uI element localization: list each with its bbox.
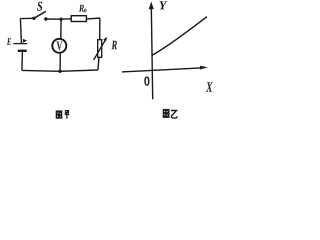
battery polarity mark	[23, 39, 27, 43]
label 0 (origin)	[144, 77, 149, 86]
wire right vertical upper (corner to rheostat)	[99, 18, 101, 40]
wire battery to bottom corner	[21, 52, 24, 70]
wire left vertical (top corner to battery)	[20, 19, 21, 44]
voltmeter V circle	[52, 39, 66, 53]
y-axis arrowhead	[149, 1, 154, 9]
wire node A to resistor R0	[61, 18, 71, 20]
voltmeter V glyph	[57, 42, 63, 51]
battery E negative plate	[18, 50, 27, 52]
switch S contact left	[32, 17, 35, 20]
switch S lever	[34, 11, 46, 18]
rheostat R body	[98, 40, 102, 58]
wire resistor R0 to top-right corner	[86, 18, 99, 19]
wire bottom	[22, 70, 98, 71]
x-axis arrowhead	[200, 66, 208, 70]
rheostat R arrow	[94, 40, 106, 60]
switch S contact right	[44, 17, 47, 20]
wire top-left segment	[20, 17, 34, 19]
caption 图乙 glyph 乙	[171, 111, 177, 119]
battery E positive plate	[13, 43, 27, 45]
caption 图甲 glyph 图	[56, 110, 63, 118]
wire switch to node A	[46, 18, 61, 20]
node B (bottom junction dot)	[58, 70, 61, 73]
caption 图乙 glyph 图	[163, 109, 170, 118]
data line	[152, 17, 207, 56]
wire node A down to voltmeter	[60, 19, 62, 39]
y-axis	[151, 6, 152, 99]
wire right vertical lower (rheostat to bottom corner)	[98, 57, 99, 70]
label S	[37, 2, 42, 11]
label Y	[159, 1, 167, 9]
label E	[7, 38, 11, 45]
wire voltmeter down to node B	[59, 53, 61, 72]
label X	[206, 82, 213, 91]
label R0	[79, 5, 84, 12]
resistor R0	[71, 16, 86, 22]
x-axis	[122, 68, 201, 72]
label R	[112, 41, 118, 50]
node A (top junction dot)	[59, 18, 62, 21]
caption 图甲 glyph 甲	[65, 110, 69, 119]
